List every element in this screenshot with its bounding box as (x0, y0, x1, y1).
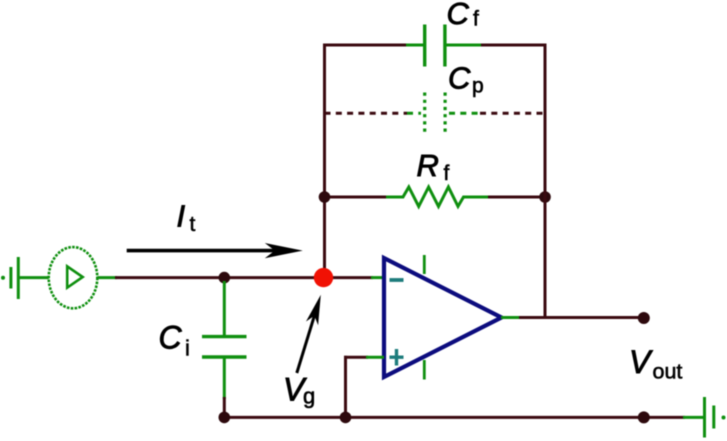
label Cp (448, 61, 484, 98)
node Vg (red dot) (314, 268, 333, 287)
svg-text:R: R (417, 148, 439, 183)
junction dot: Rf right (539, 191, 551, 203)
svg-text:f: f (473, 8, 479, 31)
wire: bottom rail (224, 416, 685, 419)
junction dot: Rf left (319, 191, 331, 203)
label It (177, 198, 196, 236)
junction dot: non-inverting branch (340, 412, 352, 424)
label Vg (283, 372, 315, 409)
resistor Rf (386, 187, 488, 206)
svg-text:p: p (472, 75, 484, 98)
capacitor Ci (202, 281, 247, 414)
arrow to Vg node (297, 295, 321, 373)
svg-text:f: f (444, 162, 450, 185)
node: output terminal (638, 312, 650, 324)
junction dot: Ci bottom (219, 412, 231, 424)
op-amp U1 (384, 255, 502, 380)
svg-text:C: C (159, 320, 183, 356)
wire: non-inverting input branch (344, 356, 384, 418)
ground (bottom right) (683, 397, 726, 438)
wire: dashed Cp row (325, 112, 547, 115)
svg-text:V: V (629, 344, 653, 380)
label Rf (417, 148, 450, 185)
label Vout (629, 344, 682, 384)
wire: feedback right vertical (544, 44, 547, 320)
svg-text:i: i (185, 336, 190, 361)
wire: Rf row (325, 196, 547, 199)
wire: current source to op-amp (input row) (97, 276, 384, 279)
wire: feedback left vertical (323, 44, 326, 273)
label Ci (159, 320, 190, 361)
arrow It (127, 243, 303, 258)
junction dot: bottom right (638, 411, 650, 423)
svg-text:g: g (303, 384, 315, 409)
wire: feedback top (Cf row) (323, 44, 547, 47)
svg-text:I: I (177, 198, 186, 233)
capacitor Cf (425, 25, 445, 67)
wire: op-amp output (501, 316, 644, 319)
svg-text:t: t (190, 213, 196, 236)
junction: Ci tap on input wire (219, 272, 231, 284)
capacitor Cp (dashed plates) (425, 93, 445, 134)
label Cf (447, 0, 480, 31)
current source It (circle with triangle) (49, 247, 98, 308)
ground (left, at current source) (1, 257, 49, 299)
svg-text:out: out (653, 360, 683, 384)
svg-text:C: C (448, 61, 471, 96)
svg-text:C: C (447, 0, 470, 31)
